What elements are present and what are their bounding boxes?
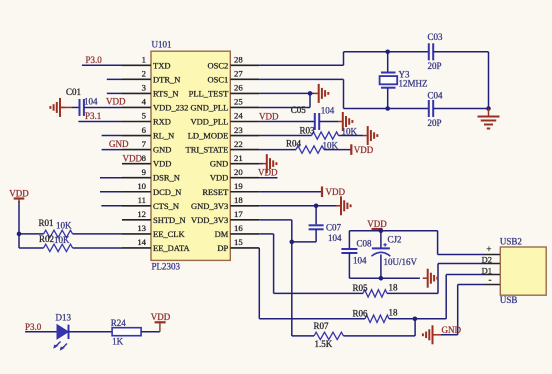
svg-text:GND: GND — [442, 325, 462, 335]
pin 11 CTS_N (left) — [122, 195, 179, 211]
wire pin26 PLL_TEST — [259, 92, 314, 94]
wire OSC1 bottom rail — [344, 108, 429, 110]
svg-text:R24: R24 — [111, 318, 127, 328]
pin 24 VDD_PLL (right) — [191, 111, 260, 127]
pin 18 GND_3V3 (right) — [191, 195, 259, 211]
wire VDD vertical — [18, 201, 20, 248]
wire VDD_3V3 to R07 — [292, 335, 314, 337]
wire junction to D1 — [415, 318, 446, 320]
ground (pin18) — [336, 196, 351, 215]
svg-text:VDD_232: VDD_232 — [153, 102, 188, 112]
svg-text:R05: R05 — [353, 283, 369, 293]
svg-text:21: 21 — [234, 153, 243, 163]
svg-text:GND: GND — [210, 159, 228, 169]
svg-text:R01: R01 — [39, 218, 54, 228]
wire P3.0 to D13 — [25, 331, 57, 333]
svg-text:C08: C08 — [357, 239, 373, 249]
svg-text:P3.1: P3.1 — [85, 111, 101, 121]
svg-text:TXD: TXD — [153, 60, 170, 70]
svg-text:C07: C07 — [326, 223, 342, 233]
wire pin17 VDD_3V3 — [259, 219, 292, 221]
svg-text:R03: R03 — [300, 126, 316, 136]
wire CJ2 bottom — [380, 255, 382, 279]
wire USB- to GND — [458, 284, 483, 286]
wire DM to R05 — [274, 292, 363, 294]
capacitor C03 — [429, 43, 433, 60]
svg-text:28: 28 — [234, 55, 243, 65]
junction (rail/CJ2) — [379, 228, 384, 233]
svg-text:C05: C05 — [291, 105, 307, 115]
pin 1 TXD (left) — [122, 55, 170, 71]
pin 23 LD_MODE (right) — [188, 125, 260, 141]
svg-text:1K: 1K — [112, 336, 124, 346]
pin 9 DSR_N (left) — [122, 167, 180, 183]
power VDD (R04) — [351, 144, 373, 155]
capacitor C04 — [429, 100, 433, 117]
svg-text:DSR_N: DSR_N — [153, 173, 180, 183]
svg-text:VDD: VDD — [326, 187, 346, 197]
resistor R07 — [314, 332, 344, 339]
wire crystal bottom — [387, 88, 389, 109]
power VDD (rail) — [367, 219, 387, 231]
svg-text:19: 19 — [234, 181, 243, 191]
wire R02 to pin14 — [73, 247, 122, 249]
wire C04 to corner — [433, 108, 488, 110]
pin 6 RL_N (left) — [122, 125, 174, 141]
svg-text:RESET: RESET — [202, 187, 229, 197]
wire C08 bottom — [348, 253, 350, 278]
svg-text:DP: DP — [217, 243, 228, 253]
pin 28 OSC2 (right) — [208, 55, 260, 71]
svg-text:18: 18 — [389, 282, 399, 292]
svg-text:4: 4 — [142, 97, 147, 107]
svg-text:RL_N: RL_N — [153, 131, 174, 141]
svg-text:P3.0: P3.0 — [86, 55, 103, 65]
resistor R01 — [44, 230, 73, 237]
svg-text:LD_MODE: LD_MODE — [188, 131, 229, 141]
wire GND red stub — [433, 334, 442, 336]
wire pin18 GND_3V3 — [259, 205, 339, 207]
wire pin21 GND — [259, 163, 263, 165]
pin 10 DCD_N (left) — [122, 181, 181, 197]
svg-text:CJ2: CJ2 — [388, 234, 402, 244]
crystal Y3 — [380, 73, 398, 88]
svg-text:R02: R02 — [39, 234, 54, 244]
ground (C05) — [338, 112, 353, 131]
svg-text:1.5K: 1.5K — [315, 339, 333, 349]
power VDD (pin19) — [322, 186, 345, 197]
USB pin D1 — [483, 274, 500, 276]
wire VDD rail — [349, 230, 437, 232]
wire C07 top — [315, 206, 317, 225]
svg-text:VDD: VDD — [153, 159, 171, 169]
wire D13 to R24 — [69, 331, 113, 333]
svg-text:7: 7 — [142, 139, 147, 149]
ground (pin26) — [314, 84, 329, 103]
wire pin11 CTS_N — [101, 205, 122, 207]
junction (earth) — [486, 106, 491, 111]
wire OSC2 top rail — [344, 51, 429, 53]
resistor R24 (box style) — [112, 328, 141, 336]
svg-text:VDD_PLL: VDD_PLL — [191, 117, 229, 127]
pin 5 RXD (left) — [122, 111, 171, 127]
svg-text:R06: R06 — [353, 308, 369, 318]
power VDD (R24) — [151, 312, 171, 322]
wire crystal top — [387, 52, 389, 73]
wire C01 to pin4 — [84, 106, 122, 108]
svg-text:25: 25 — [234, 97, 243, 107]
wire pin7 GND — [102, 149, 122, 151]
wire CJ2 top — [380, 231, 382, 249]
USB pin D2 — [483, 263, 500, 265]
capacitor C07 — [309, 225, 324, 229]
svg-text:20P: 20P — [428, 61, 442, 71]
IC U101 PL2303 body — [151, 51, 230, 260]
wire pin6 RL_N — [102, 135, 122, 137]
wire R01 to pin13 — [73, 233, 122, 235]
svg-text:R04: R04 — [286, 139, 302, 149]
svg-text:12MHZ: 12MHZ — [399, 79, 428, 89]
svg-text:U101: U101 — [152, 40, 172, 50]
svg-text:104: 104 — [353, 256, 367, 266]
wire DP to R06 — [259, 318, 365, 320]
wire R04 to VDD — [324, 149, 351, 151]
wire R07 to junction — [344, 335, 416, 337]
svg-text:17: 17 — [234, 209, 243, 219]
svg-text:DM: DM — [215, 229, 229, 239]
svg-text:24: 24 — [234, 111, 243, 121]
ground (R03) — [363, 126, 378, 145]
svg-text:GND: GND — [109, 139, 129, 149]
svg-text:VDD: VDD — [151, 312, 171, 322]
svg-text:VDD_3V3: VDD_3V3 — [191, 215, 228, 225]
resistor R02 — [44, 244, 73, 251]
wire pin5 RXD — [78, 121, 122, 123]
wire ground to C01 — [60, 106, 72, 108]
wire pin15 DP — [258, 248, 260, 319]
wire right vertical (crystal) — [488, 52, 490, 109]
svg-text:104: 104 — [328, 233, 342, 243]
pin 26 PLL_TEST (right) — [189, 83, 260, 99]
svg-text:VDD: VDD — [367, 219, 387, 229]
svg-text:18: 18 — [389, 308, 399, 318]
pin 4 VDD_232 (left) — [122, 97, 188, 113]
wire pin28 OSC2 — [259, 64, 343, 66]
svg-text:EE_CLK: EE_CLK — [153, 229, 185, 239]
pin 2 DTR_N (left) — [122, 69, 180, 85]
junction (C07/VDD_3V3) — [290, 240, 295, 245]
svg-text:5: 5 — [142, 111, 146, 121]
pin 19 RESET (right) — [202, 181, 259, 197]
svg-text:DCD_N: DCD_N — [153, 187, 181, 197]
svg-text:9: 9 — [142, 167, 146, 177]
svg-text:-: - — [489, 274, 492, 284]
pin 7 GND (left) — [122, 139, 171, 155]
pin 25 GND_PLL (right) — [191, 97, 260, 113]
svg-text:18: 18 — [234, 195, 243, 205]
svg-text:20: 20 — [234, 167, 243, 177]
svg-text:GND: GND — [153, 145, 171, 155]
resistor R05 — [363, 290, 387, 297]
earth ground (top right) — [478, 109, 500, 129]
svg-text:GND_PLL: GND_PLL — [191, 102, 229, 112]
resistor R06 — [365, 315, 389, 322]
USB connector USB2 body — [500, 247, 546, 295]
ground (pin21) — [262, 154, 277, 173]
svg-text:D13: D13 — [56, 313, 72, 323]
svg-text:TRI_STATE: TRI_STATE — [186, 145, 229, 155]
svg-text:10: 10 — [137, 181, 146, 191]
svg-text:USB: USB — [500, 295, 518, 305]
junction (crystal bottom) — [385, 106, 390, 111]
capacitor C08 — [341, 249, 357, 253]
junction (VDD/R01) — [17, 232, 22, 237]
pin 14 EE_DATA (left) — [122, 237, 190, 253]
capacitor C05 — [315, 113, 319, 130]
junction (CJ2 bottom) — [379, 276, 384, 281]
pin 12 SHTD_N (left) — [122, 209, 186, 225]
capacitor CJ2 (electrolytic) — [372, 243, 391, 256]
junction (R06/R07/D1) — [413, 317, 418, 322]
wire pin9 DSR_N — [100, 177, 122, 179]
svg-text:VDD: VDD — [259, 112, 279, 122]
svg-text:DTR_N: DTR_N — [153, 74, 180, 84]
svg-text:15: 15 — [234, 237, 243, 247]
pin 16 DM (right) — [215, 223, 260, 239]
wire pin25 GND_PLL — [259, 106, 310, 108]
ground (CJ2) — [423, 269, 438, 288]
svg-text:10K: 10K — [56, 221, 72, 231]
svg-text:VDD: VDD — [354, 145, 374, 155]
svg-text:8: 8 — [142, 153, 147, 163]
svg-text:R07: R07 — [314, 321, 330, 331]
svg-text:RXD: RXD — [153, 117, 171, 127]
svg-text:PL2303: PL2303 — [152, 261, 181, 271]
junction (crystal top) — [385, 50, 390, 55]
ground (USB-) — [423, 325, 433, 344]
wire rail to USB+ — [437, 231, 439, 255]
svg-text:12: 12 — [137, 209, 146, 219]
wire pin20 VDD — [259, 177, 277, 179]
wire C07 bottom — [315, 229, 317, 242]
svg-text:+: + — [486, 244, 491, 254]
svg-text:VDD: VDD — [210, 173, 228, 183]
resistor R03 — [312, 132, 339, 139]
wire R06 to junction — [389, 318, 415, 320]
junction (pin18/C07) — [314, 204, 319, 209]
svg-text:27: 27 — [234, 69, 243, 79]
power VDD (top-left) — [9, 189, 29, 203]
svg-text:C01: C01 — [66, 87, 81, 97]
pin 27 OSC1 (right) — [208, 69, 260, 85]
svg-text:GND_3V3: GND_3V3 — [191, 201, 228, 211]
USB pin - — [483, 284, 500, 286]
svg-text:CTS_N: CTS_N — [153, 201, 179, 211]
svg-text:VDD: VDD — [123, 153, 143, 163]
wire pin1 TXD — [82, 64, 122, 66]
svg-text:VDD: VDD — [106, 97, 126, 107]
LED D13 — [53, 325, 68, 351]
svg-text:EE_DATA: EE_DATA — [153, 243, 190, 253]
svg-text:14: 14 — [137, 237, 146, 247]
wire pin2 DTR_N — [107, 78, 122, 80]
wire C08 top — [348, 231, 350, 249]
svg-text:22: 22 — [234, 139, 243, 149]
wire pin22 TRI_STATE — [259, 149, 296, 151]
svg-text:10K: 10K — [54, 235, 70, 245]
wire pin27 OSC1 — [259, 78, 343, 80]
svg-text:VDD: VDD — [258, 168, 278, 178]
svg-text:23: 23 — [234, 125, 243, 135]
svg-text:RTS_N: RTS_N — [153, 88, 178, 98]
svg-text:OSC2: OSC2 — [208, 60, 229, 70]
wire C03 to corner — [433, 51, 488, 53]
pin 17 VDD_3V3 (right) — [191, 209, 259, 225]
svg-text:3: 3 — [142, 83, 146, 93]
junction (pin26/25) — [308, 91, 313, 96]
svg-text:C04: C04 — [428, 90, 444, 100]
wire pin10 DCD_N — [100, 191, 122, 193]
wire pin23 LD_MODE — [259, 135, 311, 137]
wire VDD to R02 — [19, 247, 44, 249]
svg-text:10U/16V: 10U/16V — [384, 257, 418, 267]
svg-text:104: 104 — [321, 105, 335, 115]
svg-text:USB2: USB2 — [500, 237, 522, 247]
svg-text:6: 6 — [142, 125, 147, 135]
wire R24 to VDD — [141, 331, 160, 333]
svg-text:2: 2 — [142, 69, 146, 79]
pin 22 TRI_STATE (right) — [186, 139, 260, 155]
wire pin24 VDD_PLL — [259, 121, 315, 123]
pin 13 EE_CLK (left) — [122, 223, 185, 239]
pin 8 VDD (left) — [122, 153, 171, 169]
pin 21 GND (right) — [210, 153, 259, 169]
svg-text:P3.0: P3.0 — [25, 322, 42, 332]
resistor R04 — [296, 146, 324, 153]
pin 3 RTS_N (left) — [122, 83, 178, 99]
svg-text:SHTD_N: SHTD_N — [153, 215, 186, 225]
wire VDD to R01 — [19, 233, 44, 235]
wire R05 to D2 — [387, 292, 438, 294]
svg-text:16: 16 — [234, 223, 243, 233]
svg-text:C03: C03 — [428, 32, 444, 42]
svg-text:20P: 20P — [428, 118, 442, 128]
wire R03 to ground — [339, 135, 364, 137]
svg-text:D2: D2 — [482, 254, 492, 264]
svg-text:104: 104 — [84, 96, 98, 106]
pin 20 VDD (right) — [210, 167, 259, 183]
wire pin3 RTS_N — [107, 92, 122, 94]
svg-text:PLL_TEST: PLL_TEST — [189, 88, 229, 98]
svg-text:OSC1: OSC1 — [208, 74, 229, 84]
pin 15 DP (right) — [217, 237, 259, 253]
ground (left of C01) — [50, 98, 65, 117]
svg-text:13: 13 — [137, 223, 146, 233]
wire C05 to ground — [319, 121, 338, 123]
capacitor C01 — [80, 99, 84, 116]
USB pin + — [483, 254, 500, 256]
svg-text:1: 1 — [142, 55, 146, 65]
svg-text:VDD: VDD — [9, 189, 29, 199]
wire pin19 RESET — [259, 191, 321, 193]
svg-text:26: 26 — [234, 83, 243, 93]
wire bottom rail — [349, 277, 420, 279]
svg-text:11: 11 — [138, 195, 146, 205]
wire pin16 DM — [259, 233, 273, 235]
